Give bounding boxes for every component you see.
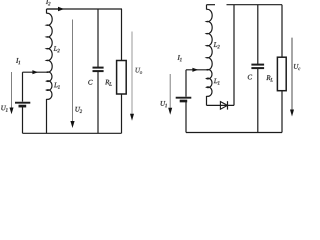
resistor RL left [117,61,127,95]
inductor L1 (right circuit) [207,69,212,96]
wire top segment A right circuit [207,4,216,6]
wire bottom right circuit [186,132,282,134]
battery U1 right short plate [180,100,188,103]
label Uc right [294,64,300,70]
wire R-branch top left circuit [121,9,123,61]
capacitor C right top plate [251,64,264,66]
arrow Uo left [130,32,134,121]
wire coil stub top left [46,9,48,13]
label C right [248,75,252,80]
wire battery to bottom right [185,102,187,133]
battery U1 left short plate [19,105,27,108]
capacitor C right bottom plate [251,67,264,69]
label U1 right [161,101,167,107]
wire C-branch bottom left [97,72,99,133]
wire R-branch bottom left [121,94,123,133]
wire diode row right [207,104,235,106]
wire battery to bottom left [22,107,24,133]
label Uo left [136,68,143,74]
wire C-branch bottom right [257,69,259,133]
wire I1 tap right [186,69,207,71]
inductor L2 (left circuit) [47,13,53,72]
wire diode branch vertical right [233,5,235,106]
label I1 left [16,58,20,64]
battery U1 left long plate [15,102,30,104]
inductor L1 (left circuit) [47,72,52,99]
label U1 left [1,106,7,112]
wire coil stub top right [206,5,208,10]
wire C-branch top right [257,5,259,64]
battery U1 right long plate [176,97,192,99]
arrow U1 left [10,72,14,114]
wire coil bottom left [46,99,48,133]
label I2 left [46,0,51,5]
wire I1 tap left [23,71,47,73]
diode D bar [227,101,229,109]
label L1 left [54,83,60,89]
wire top left circuit [47,8,123,10]
arrow U2 left [70,20,74,129]
diode D right [220,102,227,110]
arrow I1 right [192,68,198,72]
wire R-branch bottom right [281,91,283,133]
label C left [88,80,92,85]
wire C-branch top left circuit [97,9,99,67]
arrow U1 right [168,74,172,115]
resistor RL right [277,57,286,90]
label L1 right [214,79,220,85]
label L2 left [54,46,60,52]
arrow I1 (left tap wire) [32,70,38,74]
inductor L2 (right circuit) [207,9,213,70]
arrow Uc right [290,38,294,117]
wire bottom left circuit [23,132,122,134]
wire battery branch left [22,72,24,101]
arrow I2 (left top wire) [47,7,65,11]
label RL right [266,75,273,81]
wire coil bottom right [206,96,208,105]
label U2 left [75,107,82,113]
label RL left [105,80,112,86]
label L2 right [214,42,220,48]
wire top segment B right circuit [227,4,283,6]
wire R-branch top right [281,5,283,58]
label I1 right [178,55,182,61]
capacitor C left bottom plate [93,70,104,72]
capacitor C left top plate [93,67,104,69]
wire battery branch right [185,70,187,97]
